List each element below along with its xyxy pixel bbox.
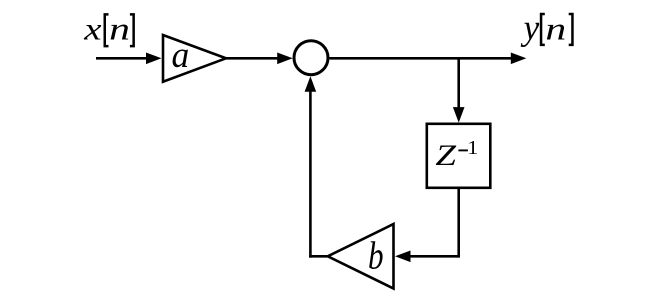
wire branch down to delay Z^-1	[457, 58, 460, 109]
wire summer to output y[n]	[330, 57, 513, 60]
svg-text:1: 1	[467, 136, 478, 159]
gain b (triangle amplifier, pointing left)	[328, 224, 394, 289]
node x[n] input label	[83, 11, 134, 48]
svg-text:Z: Z	[435, 139, 457, 172]
svg-text:n: n	[545, 12, 566, 47]
wire input x[n] to gain a	[96, 57, 148, 60]
wire feedback riser up to summer	[309, 90, 312, 258]
wire gain b to feedback riser	[309, 255, 328, 258]
node y[n] output label	[521, 7, 573, 48]
svg-text:y: y	[521, 7, 540, 48]
arrowhead into delay Z^-1	[453, 107, 465, 123]
arrowhead into summer (feedback)	[305, 76, 317, 92]
arrowhead into gain b	[395, 251, 411, 263]
svg-text:n: n	[109, 12, 130, 47]
wire gain a to summer	[226, 57, 279, 60]
svg-text:b: b	[368, 234, 384, 277]
summer node (circle)	[294, 41, 328, 75]
wire to gain b	[409, 255, 459, 258]
gain a (triangle amplifier)	[163, 35, 226, 82]
arrowhead into summer (from a)	[277, 53, 293, 65]
delay block Z^-1	[427, 124, 491, 188]
svg-text:x: x	[83, 11, 102, 47]
wire delay Z^-1 down	[457, 188, 460, 258]
svg-text:a: a	[172, 34, 190, 75]
arrowhead into gain a	[146, 53, 162, 65]
arrowhead output y[n]	[511, 53, 527, 65]
